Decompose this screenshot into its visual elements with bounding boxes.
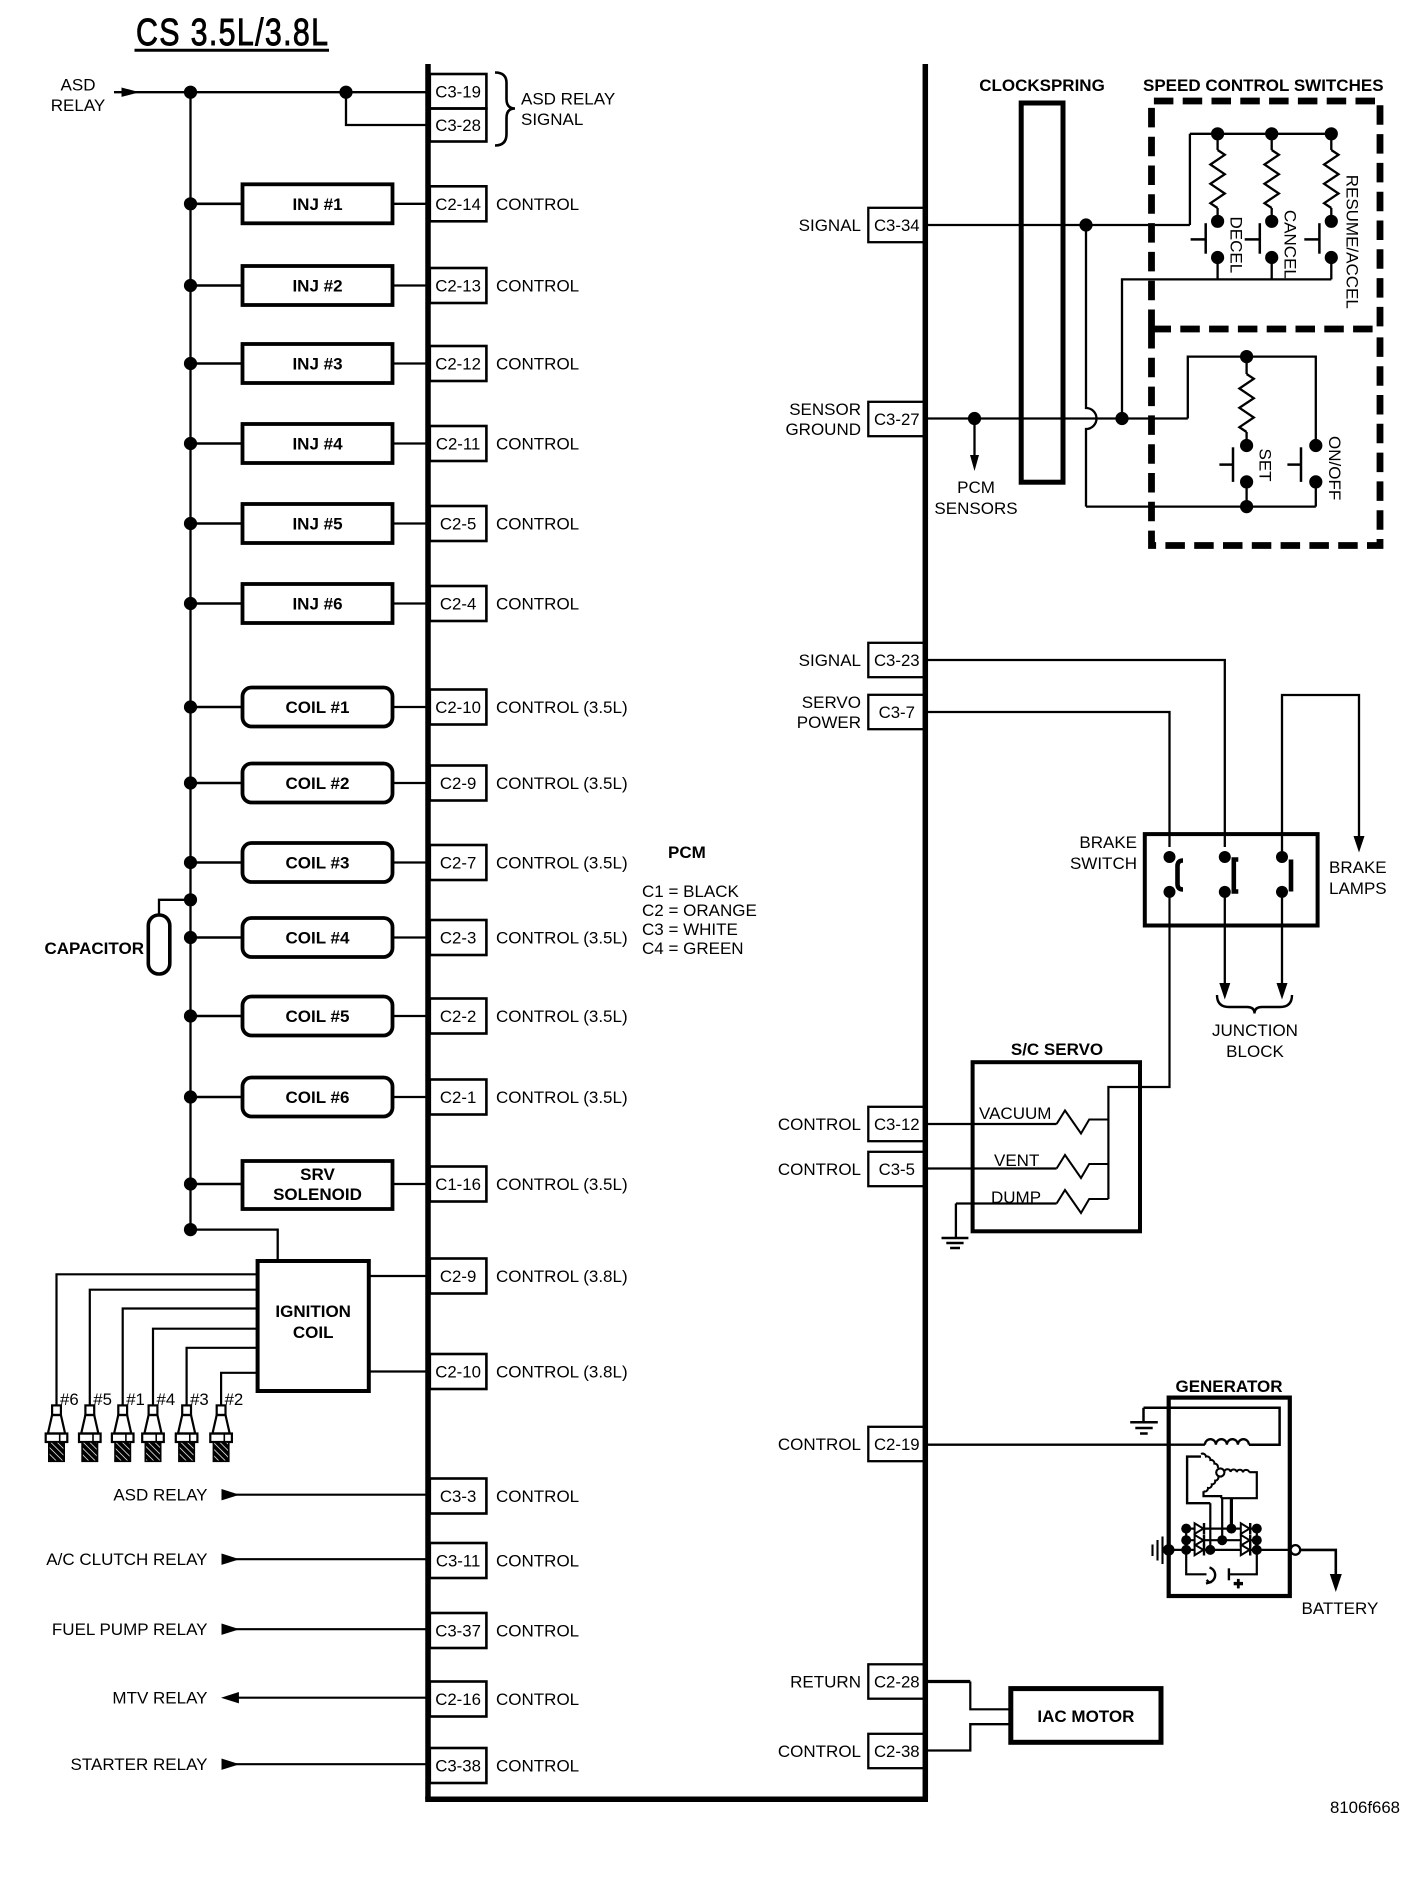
svg-text:LAMPS: LAMPS [1329,879,1387,898]
svg-text:INJ #1: INJ #1 [292,195,342,214]
pin C2-28 (right) [790,1664,925,1698]
svg-text:CONTROL (3.5L): CONTROL (3.5L) [496,1175,628,1194]
svg-text:CONTROL: CONTROL [496,195,579,214]
svg-text:C2-14: C2-14 [435,195,481,214]
pin C2-4 (left #8) [430,586,487,621]
svg-text:CONTROL (3.5L): CONTROL (3.5L) [496,774,628,793]
svg-text:RETURN: RETURN [790,1673,861,1692]
svg-text:C3-37: C3-37 [435,1622,481,1641]
svg-text:CONTROL (3.8L): CONTROL (3.8L) [496,1267,628,1286]
svg-text:SPEED CONTROL SWITCHES: SPEED CONTROL SWITCHES [1143,76,1384,95]
injector INJ #3 [184,344,427,383]
ground (servo dump) [942,1238,969,1248]
wire C3-23 to brake switch [928,660,1225,847]
wire brake contact2 to junction block [1219,892,1230,1000]
stator windings (wye) [1187,1454,1257,1504]
brace ASD RELAY SIGNAL [495,73,515,146]
svg-text:C2-12: C2-12 [435,355,481,374]
wire to battery [1300,1550,1342,1592]
svg-text:SRV: SRV [300,1165,335,1184]
switch CANCEL [1245,215,1279,280]
servo valve DUMP [956,1188,1109,1213]
svg-text:C2-5: C2-5 [440,515,476,534]
svg-text:C3-19: C3-19 [435,83,481,102]
brake switch contact 2 [1219,851,1239,898]
svg-text:C2-2: C2-2 [440,1007,476,1026]
pin C1-16 (left #15) [430,1167,487,1202]
svg-text:SOLENOID: SOLENOID [273,1185,362,1204]
title CS 3.5L/3.8L [136,12,328,54]
pin C3-11 (left #19) [430,1543,487,1578]
label DECEL [1227,217,1246,274]
svg-text:CONTROL: CONTROL [496,1552,579,1571]
brake switch box [1145,834,1318,925]
svg-text:CONTROL: CONTROL [496,1487,579,1506]
pin C2-38 (right) [778,1734,926,1768]
output terminal [1291,1545,1301,1555]
wire to ASD RELAY [113,1486,427,1505]
svg-text:ON/OFF: ON/OFF [1325,436,1344,500]
dashed box lower (set / on-off switches) [1152,329,1381,546]
pin C2-12 (left #5) [430,346,487,381]
svg-text:C2-10: C2-10 [435,698,481,717]
svg-text:VENT: VENT [994,1151,1039,1170]
svg-text:C2-13: C2-13 [435,277,481,296]
svg-text:#6: #6 [60,1390,79,1409]
svg-text:C1 = BLACK: C1 = BLACK [642,882,740,901]
brake switch contact 3 [1276,851,1291,898]
label ON/OFF [1325,436,1344,500]
svg-text:CONTROL: CONTROL [496,1757,579,1776]
junction sensor ground / switch return [1115,412,1128,425]
rectifier diodes [1181,1523,1262,1556]
svg-text:A/C CLUTCH RELAY: A/C CLUTCH RELAY [46,1550,207,1569]
s/c servo box [973,1062,1140,1231]
svg-text:BRAKE: BRAKE [1329,858,1387,877]
bottom rail set/onoff [1086,505,1316,507]
top rail of switch pack [1190,133,1332,135]
label BRAKE LAMPS [1329,858,1387,898]
svg-text:C3-23: C3-23 [874,651,920,670]
ignition coil (3.8L) [184,1223,427,1391]
pin C3-37 (left #20) [430,1613,487,1648]
pin C2-2 (left #13) [430,999,487,1034]
svg-text:POWER: POWER [797,713,861,732]
svg-text:C4 = GREEN: C4 = GREEN [642,939,744,958]
capacitor [45,893,198,974]
svg-text:PCM: PCM [668,843,706,862]
injector INJ #1 [184,184,427,223]
wire C2-38 to IAC motor [928,1724,1011,1750]
svg-text:C2-9: C2-9 [440,774,476,793]
wire C3-34 signal [928,134,1190,225]
switch RESUME/ACCEL [1304,215,1338,280]
svg-text:GENERATOR: GENERATOR [1175,1377,1282,1396]
svg-text:CONTROL: CONTROL [778,1115,861,1134]
svg-text:CONTROL (3.5L): CONTROL (3.5L) [496,1088,628,1107]
svg-text:CANCEL: CANCEL [1281,210,1300,279]
resistor RESUME/ACCEL [1324,127,1338,221]
dashed box upper (resume/cancel/decel switches) [1152,101,1381,329]
PCM connector legend [642,882,757,958]
left supply bus [189,92,191,1229]
pin C3-28 (left #2) [430,109,487,142]
label SET [1256,449,1275,482]
svg-text:IGNITION: IGNITION [275,1302,351,1321]
svg-text:COIL #5: COIL #5 [286,1007,350,1026]
generator box [1169,1398,1290,1596]
spark plug #3 [176,1348,258,1462]
svg-text:COIL #1: COIL #1 [286,698,350,717]
pin C3-19 (left #1) [430,74,487,109]
svg-text:CAPACITOR: CAPACITOR [45,939,145,958]
output bus [1163,1544,1291,1556]
svg-text:C3-38: C3-38 [435,1757,481,1776]
svg-text:ASD: ASD [61,76,96,95]
svg-text:CS 3.5L/3.8L: CS 3.5L/3.8L [136,12,328,54]
svg-text:#5: #5 [93,1390,112,1409]
brake switch contact 1 [1164,851,1184,898]
svg-text:GROUND: GROUND [785,420,861,439]
wire ASD feed to C3-19 [191,91,428,93]
label RESUME/ACCEL [1343,175,1362,309]
svg-text:BATTERY: BATTERY [1302,1599,1379,1618]
injector INJ #2 [184,266,427,305]
SRV solenoid [184,1161,427,1209]
rotor loop [1186,1550,1257,1589]
svg-text:COIL #4: COIL #4 [286,929,350,948]
wire C2-19 to field winding [928,1444,1205,1446]
svg-text:C2-1: C2-1 [440,1088,476,1107]
resistor CANCEL [1265,127,1279,221]
svg-text:C2-3: C2-3 [440,929,476,948]
pin C3-5 (right) [778,1152,926,1186]
wire field loop [1144,1408,1280,1445]
spark plug #6 [46,1274,258,1461]
PCM right edge [923,64,929,1799]
svg-text:COIL #2: COIL #2 [286,774,350,793]
clockspring label [979,76,1105,95]
pin C2-7 (left #11) [430,845,487,880]
clockspring [1021,103,1063,482]
svg-text:ASD RELAY: ASD RELAY [113,1486,207,1505]
pin C3-38 (left #22) [430,1748,487,1783]
svg-text:CONTROL: CONTROL [496,435,579,454]
label ASD RELAY (top left) [51,76,106,116]
injector INJ #4 [184,424,427,463]
svg-text:CONTROL: CONTROL [778,1742,861,1761]
switch ON/OFF [1287,439,1322,507]
svg-text:COIL #3: COIL #3 [286,854,350,873]
svg-text:CONTROL: CONTROL [496,1622,579,1641]
pin C2-1 (left #14) [430,1080,487,1115]
injector INJ #5 [184,504,427,543]
ground (generator field) [1130,1408,1158,1434]
arrow from ASD relay [114,88,191,97]
pin C3-7 (right) [797,693,926,732]
svg-text:CONTROL (3.5L): CONTROL (3.5L) [496,1007,628,1026]
lower rail of upper switch pack [1122,279,1331,412]
pin function labels (left side) [496,195,628,1776]
dashed divider between switch compartments [1152,326,1381,333]
servo valve VACUUM [928,1104,1108,1134]
label PCM SENSORS [934,478,1017,518]
label S/C SERVO [1011,1040,1103,1059]
pin C2-11 (left #6) [430,426,487,461]
wire C3-27 sensor ground [928,357,1316,439]
ignition coil COIL #4 [184,918,427,957]
pin C2-9 (left #16) [430,1259,487,1294]
stator phase leads [1210,1498,1231,1550]
wire to FUEL PUMP RELAY [52,1620,427,1639]
pin C2-3 (left #12) [430,920,487,955]
junction pcm sensors tap [968,412,981,425]
pin C2-13 (left #4) [430,268,487,303]
svg-text:C2-7: C2-7 [440,854,476,873]
svg-text:STARTER RELAY: STARTER RELAY [71,1755,208,1774]
svg-text:C2-11: C2-11 [436,435,480,454]
ignition coil COIL #5 [184,997,427,1036]
spark plug #4 [142,1329,257,1462]
pin C3-3 (left #18) [430,1479,487,1514]
svg-text:BLOCK: BLOCK [1226,1042,1284,1061]
svg-text:SENSOR: SENSOR [789,400,861,419]
svg-text:C2-10: C2-10 [435,1363,481,1382]
svg-text:VACUUM: VACUUM [979,1104,1051,1123]
ignition coil COIL #2 [184,764,427,803]
svg-text:FUEL PUMP RELAY: FUEL PUMP RELAY [52,1620,208,1639]
svg-text:8106f668: 8106f668 [1330,1798,1400,1817]
svg-text:COIL: COIL [293,1323,334,1342]
svg-text:#4: #4 [157,1390,176,1409]
wire brake contact3 to junction block [1277,892,1288,1000]
junction bus top [184,86,197,99]
wire to A/C CLUTCH RELAY [46,1550,427,1569]
svg-text:C3-7: C3-7 [879,703,915,722]
svg-text:INJ #3: INJ #3 [292,355,342,374]
spark plug #5 [79,1290,258,1462]
svg-text:C2-19: C2-19 [874,1435,920,1454]
svg-text:CONTROL: CONTROL [496,515,579,534]
wire C3-7 to brake switch [928,712,1170,847]
resistor SET [1239,357,1253,446]
svg-text:CONTROL: CONTROL [496,1690,579,1709]
svg-text:SIGNAL: SIGNAL [799,651,861,670]
svg-text:IAC MOTOR: IAC MOTOR [1037,1707,1134,1726]
svg-text:INJ #2: INJ #2 [292,277,342,296]
svg-text:CONTROL (3.5L): CONTROL (3.5L) [496,929,628,948]
svg-text:C3-5: C3-5 [879,1160,915,1179]
wire dump to ground [955,1204,957,1239]
field winding (inductor) [1205,1439,1249,1445]
svg-text:CONTROL (3.5L): CONTROL (3.5L) [496,698,628,717]
IAC motor [1011,1689,1161,1743]
label BRAKE SWITCH [1070,833,1137,873]
svg-text:PCM: PCM [957,478,995,497]
svg-text:#3: #3 [190,1390,209,1409]
wire branch to C3-28 [346,92,427,125]
svg-text:SIGNAL: SIGNAL [799,216,861,235]
svg-text:C3-28: C3-28 [435,116,481,135]
svg-text:SENSORS: SENSORS [934,499,1017,518]
arrow to PCM sensors [970,419,979,472]
switch DECEL [1191,215,1225,280]
pin C3-23 (right) [799,643,926,677]
wire C2-28 to IAC motor [928,1682,1011,1710]
svg-text:#2: #2 [225,1390,244,1409]
label JUNCTION BLOCK [1212,1021,1298,1061]
label BATTERY [1302,1599,1379,1618]
svg-text:C2-4: C2-4 [440,595,476,614]
svg-text:C1-16: C1-16 [435,1175,481,1194]
junction signal/ground-drop [1079,218,1092,231]
injector INJ #6 [184,584,427,623]
pin C3-34 (right) [799,208,926,242]
wire brake contact3 top to brake lamps [1282,695,1365,857]
svg-text:C3-3: C3-3 [440,1487,476,1506]
pin C2-10 (left #9) [430,690,487,725]
ignition coil COIL #3 [184,843,427,882]
pin C2-10 (left #17) [430,1354,487,1389]
spark plug #1 [112,1309,258,1462]
svg-text:C3 = WHITE: C3 = WHITE [642,920,738,939]
svg-text:C2-28: C2-28 [874,1673,920,1692]
brush symbol [1153,1537,1163,1565]
svg-text:SIGNAL: SIGNAL [521,110,583,129]
svg-text:C2-16: C2-16 [435,1690,481,1709]
brace junction block [1217,995,1292,1014]
svg-text:JUNCTION: JUNCTION [1212,1021,1298,1040]
junction C3-28 branch [339,86,352,99]
svg-text:BRAKE: BRAKE [1079,833,1137,852]
pin C2-16 (left #21) [430,1682,487,1717]
svg-text:C3-34: C3-34 [874,216,920,235]
pin C3-27 (right) [785,400,925,439]
svg-text:S/C SERVO: S/C SERVO [1011,1040,1103,1059]
pin C2-19 (right) [778,1427,926,1461]
svg-text:CONTROL: CONTROL [496,355,579,374]
svg-text:INJ #6: INJ #6 [292,595,342,614]
svg-text:CONTROL: CONTROL [496,277,579,296]
label CANCEL [1281,210,1300,279]
resistor DECEL [1210,127,1224,221]
label SPEED CONTROL SWITCHES [1143,76,1384,95]
svg-text:C3-12: C3-12 [874,1115,920,1134]
servo valve VENT [928,1151,1108,1178]
svg-text:#1: #1 [126,1390,145,1409]
svg-text:RELAY: RELAY [51,96,106,115]
svg-text:RESUME/ACCEL: RESUME/ACCEL [1343,175,1362,309]
PCM left edge [425,64,431,1799]
svg-text:COIL #6: COIL #6 [286,1088,350,1107]
svg-text:CLOCKSPRING: CLOCKSPRING [979,76,1105,95]
wire brake contact1 to servo power feed [1108,892,1169,1199]
label GENERATOR [1175,1377,1282,1396]
drawing number 8106f668 [1330,1798,1400,1817]
PCM bottom edge [425,1797,928,1803]
svg-text:SERVO: SERVO [802,693,861,712]
svg-text:C2 = ORANGE: C2 = ORANGE [642,901,757,920]
wire drop with hop to on/off rail [1086,225,1097,507]
pin C2-14 (left #3) [430,186,487,221]
svg-text:INJ #5: INJ #5 [292,515,342,534]
junction set bottom [1240,500,1253,513]
spark plug #2 [210,1373,257,1462]
svg-text:ASD RELAY: ASD RELAY [521,90,615,109]
svg-text:CONTROL: CONTROL [778,1435,861,1454]
PCM label [668,843,706,862]
switch SET [1219,439,1253,507]
svg-text:C2-9: C2-9 [440,1267,476,1286]
svg-text:CONTROL (3.8L): CONTROL (3.8L) [496,1363,628,1382]
junction set rail [1240,350,1253,363]
svg-text:MTV RELAY: MTV RELAY [112,1689,207,1708]
pin C3-12 (right) [778,1107,926,1141]
svg-text:C3-27: C3-27 [874,410,920,429]
pin C2-9 (left #10) [430,766,487,801]
ignition coil COIL #1 [184,688,427,727]
svg-text:CONTROL: CONTROL [778,1160,861,1179]
wire to MTV RELAY [112,1689,427,1708]
svg-text:C2-38: C2-38 [874,1742,920,1761]
svg-text:CONTROL (3.5L): CONTROL (3.5L) [496,854,628,873]
label ASD RELAY SIGNAL [521,90,615,130]
pin C2-5 (left #7) [430,506,487,541]
ignition coil COIL #6 [184,1078,427,1117]
svg-text:INJ #4: INJ #4 [292,435,343,454]
svg-text:CONTROL: CONTROL [496,595,579,614]
svg-text:C3-11: C3-11 [436,1552,480,1571]
svg-text:SWITCH: SWITCH [1070,854,1137,873]
svg-text:DECEL: DECEL [1227,217,1246,274]
wire to STARTER RELAY [71,1755,427,1774]
svg-text:SET: SET [1256,449,1275,482]
